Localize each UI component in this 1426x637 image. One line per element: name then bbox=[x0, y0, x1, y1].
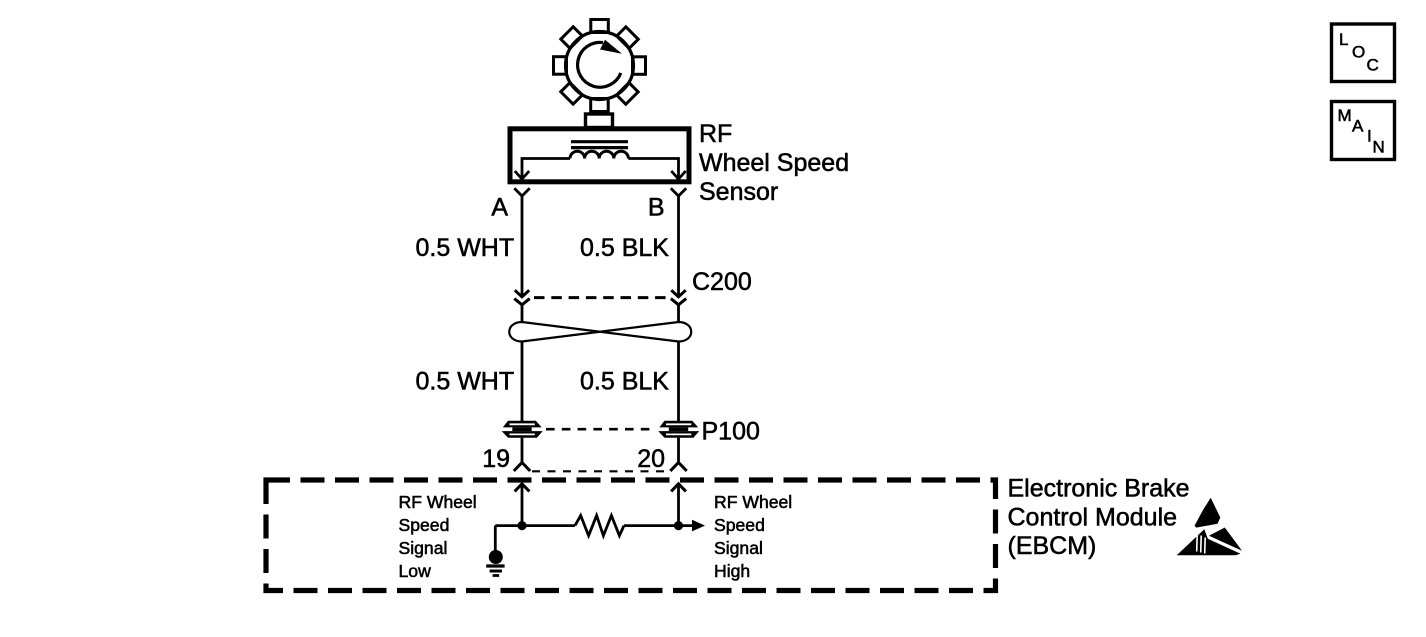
svg-text:0.5 WHT: 0.5 WHT bbox=[416, 234, 515, 262]
svg-text:RF Wheel: RF Wheel bbox=[399, 492, 477, 512]
MAIN reference box bbox=[1332, 102, 1395, 160]
wire B (0.5 BLK lower) bbox=[677, 342, 680, 422]
svg-text:0.5 BLK: 0.5 BLK bbox=[580, 368, 669, 396]
P100 dashed connector line bbox=[546, 428, 654, 431]
svg-text:Speed: Speed bbox=[399, 515, 450, 535]
wire from coil to pin B inside box bbox=[628, 159, 678, 178]
EBCM dashed box bbox=[266, 480, 996, 591]
svg-text:I: I bbox=[1367, 126, 1372, 145]
svg-text:C200: C200 bbox=[692, 268, 752, 296]
svg-text:C: C bbox=[1367, 56, 1379, 75]
direction arrowhead bbox=[692, 520, 705, 532]
ESD warning symbol bbox=[1177, 498, 1242, 556]
ground drop wire bbox=[494, 526, 497, 551]
sensor stub bbox=[586, 114, 613, 128]
internal horizontal wire bbox=[495, 524, 575, 527]
wire A (0.5 WHT lower) bbox=[521, 342, 524, 422]
wire stubs below P100 bbox=[521, 438, 524, 463]
svg-text:A: A bbox=[491, 194, 508, 222]
thin dashed line between pin chevrons bbox=[532, 470, 667, 472]
svg-text:High: High bbox=[714, 561, 750, 581]
rotation arrow inside tone wheel bbox=[578, 40, 622, 87]
tone wheel (toothed reluctor ring) bbox=[554, 20, 646, 112]
svg-text:Control Module: Control Module bbox=[1008, 503, 1178, 531]
EBCM pin 19 chevron bbox=[514, 463, 530, 471]
inductor core lines bbox=[571, 140, 628, 143]
EBCM pin 20 chevron bbox=[670, 463, 686, 471]
wire A (0.5 WHT upper) bbox=[521, 196, 524, 295]
connector C200 arrow B bbox=[671, 290, 685, 297]
svg-text:Signal: Signal bbox=[399, 538, 448, 558]
twisted pair symbol bbox=[509, 322, 691, 342]
svg-text:0.5 WHT: 0.5 WHT bbox=[416, 368, 515, 396]
svg-text:P100: P100 bbox=[702, 418, 760, 446]
wire stubs into twisted pair bbox=[521, 305, 524, 323]
svg-text:RF Wheel: RF Wheel bbox=[714, 492, 792, 512]
svg-text:A: A bbox=[1352, 116, 1364, 135]
signal high arrow into module bbox=[671, 484, 686, 492]
grommet P100 left bbox=[502, 421, 543, 438]
svg-text:M: M bbox=[1338, 106, 1352, 125]
resistor R1 bbox=[575, 516, 624, 536]
svg-text:Signal: Signal bbox=[714, 538, 763, 558]
inductor coil bbox=[570, 151, 628, 158]
svg-text:0.5 BLK: 0.5 BLK bbox=[580, 234, 669, 262]
svg-text:Wheel Speed: Wheel Speed bbox=[699, 149, 849, 177]
svg-text:L: L bbox=[1339, 30, 1348, 49]
arrowhead pin A inside box bbox=[515, 171, 529, 179]
svg-text:N: N bbox=[1373, 137, 1385, 156]
svg-text:RF: RF bbox=[699, 120, 732, 148]
svg-text:(EBCM): (EBCM) bbox=[1008, 532, 1097, 560]
terminal B female connector Y bbox=[671, 188, 686, 196]
svg-text:19: 19 bbox=[482, 445, 510, 473]
svg-text:Sensor: Sensor bbox=[699, 178, 778, 206]
arrowhead pin B inside box bbox=[671, 171, 685, 179]
LOC reference box bbox=[1332, 24, 1395, 82]
svg-text:O: O bbox=[1352, 42, 1365, 61]
svg-text:B: B bbox=[648, 194, 665, 222]
signal low arrow into module bbox=[515, 484, 530, 492]
wire from coil to pin A inside box bbox=[522, 159, 570, 178]
junction dot pin19 wire bbox=[517, 521, 526, 530]
RF wheel speed sensor box U1 bbox=[510, 129, 689, 182]
svg-text:Low: Low bbox=[399, 561, 432, 581]
svg-text:20: 20 bbox=[637, 445, 665, 473]
terminal A female connector Y bbox=[514, 188, 529, 196]
wire B (0.5 BLK upper) bbox=[677, 196, 680, 295]
C200 dashed connector line bbox=[534, 296, 668, 299]
grommet P100 right bbox=[658, 421, 699, 438]
connector C200 arrow A bbox=[515, 290, 529, 297]
svg-text:Electronic Brake: Electronic Brake bbox=[1008, 475, 1190, 503]
chassis ground G1 bbox=[489, 550, 503, 564]
junction dot pin20 wire bbox=[674, 521, 683, 530]
svg-text:Speed: Speed bbox=[714, 515, 765, 535]
